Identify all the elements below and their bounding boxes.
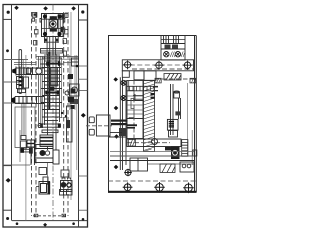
left plate verticals	[120, 77, 126, 170]
coil box part	[167, 119, 178, 130]
small dark fitting	[175, 111, 180, 115]
plate bolt circle 2	[121, 96, 126, 101]
rod end circle	[36, 68, 42, 74]
centerline vertical	[52, 5, 54, 221]
locating dots bottom band	[16, 218, 85, 227]
right strip ticks	[79, 66, 88, 210]
guide line y82	[3, 81, 21, 83]
right column dot	[76, 65, 79, 68]
locating dots left strip	[6, 11, 11, 220]
top block corner bolts	[43, 14, 62, 36]
right column upper parts	[66, 58, 79, 142]
left strip inner line	[11, 5, 13, 221]
central column verticals	[47, 54, 49, 150]
inner column pair	[39, 56, 41, 128]
border small box	[193, 150, 197, 156]
small boxes above bolt	[21, 136, 26, 140]
lower section lines	[110, 152, 194, 173]
lower hatched rect	[160, 164, 175, 173]
horizontal shaft assembly	[127, 139, 181, 147]
lower-left assembly y145-163	[3, 130, 59, 165]
shaft below block	[41, 37, 63, 56]
connector bolt rows	[111, 120, 137, 129]
small dot right mid	[65, 115, 67, 117]
small pipe stub	[133, 94, 144, 101]
top block bolt circles	[164, 52, 181, 57]
thin side verticals	[26, 12, 77, 221]
right view outer frame	[108, 36, 196, 193]
gap connector assembly	[86, 115, 127, 137]
dark cluster y135-147	[27, 135, 53, 147]
top band plate	[122, 60, 193, 71]
seam hatch patches y79	[155, 78, 196, 83]
band crosshair circles	[123, 60, 192, 70]
spring stack	[182, 140, 188, 157]
boxes above nozzle	[169, 131, 178, 138]
left bolt marks near hatch	[151, 93, 155, 99]
pocket rect left	[15, 107, 35, 148]
right margin diamonds	[113, 77, 118, 169]
bottom inner line	[12, 220, 88, 222]
bottom cluster y180-191	[61, 178, 73, 192]
strip tick y19	[3, 18, 12, 20]
strip tick y210	[3, 209, 12, 211]
dashed cage lines	[32, 12, 69, 216]
short guide vertical	[22, 60, 24, 83]
middle stack rects	[127, 81, 143, 139]
lower-left bolt circle	[124, 169, 132, 177]
top block (clamp with circle)	[42, 14, 64, 37]
block right-side dark fittings	[61, 14, 64, 32]
top-right block	[161, 36, 185, 61]
right strip inner line	[78, 5, 80, 228]
guide line y103	[3, 102, 35, 104]
bottom dashed line	[108, 180, 196, 182]
left arm lower (bolt at y100)	[11, 96, 44, 104]
hatched column	[144, 81, 155, 152]
guide line y59.5	[3, 59, 28, 61]
inner right vertical	[191, 130, 193, 165]
cage bottom end fittings	[33, 214, 67, 217]
shaft gray body	[51, 68, 58, 87]
hatched rect under band	[164, 74, 181, 81]
bottom crosshair circles	[123, 182, 194, 193]
cylinder part	[174, 91, 180, 98]
left blocks y76-92	[17, 77, 29, 93]
left view outer frame	[3, 5, 88, 228]
strip tick y166	[3, 165, 12, 167]
block hatch between circles	[170, 52, 184, 58]
top block side tabs	[40, 19, 65, 33]
band dashed centerline	[122, 64, 193, 66]
left slider bar	[19, 50, 22, 94]
cage top fittings	[32, 12, 68, 56]
upper arm nut	[26, 68, 30, 74]
right column small parts	[153, 79, 194, 156]
second level under band	[122, 71, 156, 81]
right strip diamond	[81, 113, 86, 118]
dense central mechanism band	[36, 52, 78, 150]
crosshair small circle left of bar	[38, 124, 42, 128]
bottom right part	[60, 190, 73, 196]
bottom square part	[36, 182, 50, 195]
rungs	[44, 54, 60, 56]
horizontal pipe across	[127, 86, 159, 91]
right strip tick y20	[79, 19, 88, 21]
small rects y165-182	[39, 163, 69, 185]
nozzle dark assembly	[165, 147, 180, 160]
plate bolt circle 1	[121, 80, 126, 85]
left arm upper (bolt at y71)	[12, 63, 44, 76]
locating dots top band	[14, 6, 84, 14]
right column dark fittings	[68, 74, 76, 109]
